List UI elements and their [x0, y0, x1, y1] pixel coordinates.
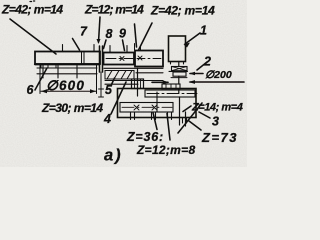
first stage gear box — [145, 90, 195, 97]
vertical shaft below pinion — [99, 72, 104, 97]
short arrow to brake drum (left) — [152, 81, 168, 83]
rails under right gears — [104, 67, 163, 69]
vertical shaft from open gear down into gearbox — [137, 68, 139, 96]
gearbox housing 3 — [118, 89, 197, 118]
bearing ticks above drum — [63, 45, 95, 52]
frame rails under drum — [37, 68, 97, 74]
second stage gear box — [120, 103, 173, 113]
brake drum — [173, 72, 186, 76]
long arrow to brake drum (right) — [190, 81, 244, 83]
diameter 600 dimension — [40, 65, 97, 94]
input bearing housing — [162, 84, 180, 89]
gear block right of pinion — [104, 53, 135, 65]
specks above 42 — [30, 0, 35, 3]
big gear 9 (Z=42) — [135, 51, 163, 67]
motor shaft — [178, 62, 180, 67]
short arrow pointing at coupling — [190, 73, 203, 75]
leader from right Z=42 label to gear 9 — [139, 23, 153, 50]
output shaft — [179, 97, 181, 125]
coupling 2 (x-box) — [172, 67, 188, 71]
input shaft into gearbox — [178, 89, 180, 93]
electric motor 1 — [169, 36, 186, 62]
leader line under Z=12 tail to gear top — [135, 24, 137, 47]
bearing block on vertical shaft — [132, 79, 144, 89]
ticks above gear 9 — [135, 44, 141, 51]
leader from Z=42 left label to drum gear — [10, 19, 56, 54]
pinion shaft faces (gear 8) — [100, 46, 103, 72]
intermediate shaft — [156, 92, 158, 112]
motor feet — [171, 62, 184, 65]
open gear 5 (hatched bar) — [105, 71, 134, 80]
drum body (barrel) — [35, 52, 100, 65]
leader arrow from Z=12 label down to pinion — [99, 17, 101, 42]
long leader to pinion Z=14 — [178, 103, 202, 133]
